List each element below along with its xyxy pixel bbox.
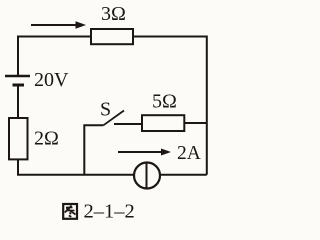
current source: [134, 163, 160, 189]
wire top-right and right side: [133, 37, 207, 175]
wire 5Ω to right rail: [184, 122, 207, 124]
battery E: [5, 76, 30, 85]
svg-text:5Ω: 5Ω: [152, 91, 177, 113]
wire battery to 2Ω resistor: [17, 87, 19, 119]
current arrow 2A: [118, 149, 171, 156]
caption 图 glyph: [63, 204, 77, 219]
wire top-left segment: [18, 37, 91, 76]
svg-text:20V: 20V: [34, 69, 69, 91]
resistor 3Ω: [91, 29, 133, 44]
wire switch branch left lead and junction drop: [84, 125, 103, 175]
svg-text:3Ω: 3Ω: [101, 3, 126, 25]
current arrow (top): [31, 21, 86, 28]
svg-text:2Ω: 2Ω: [34, 128, 59, 150]
svg-text:2–1–2: 2–1–2: [84, 201, 135, 223]
switch S blade: [104, 111, 125, 126]
resistor 5Ω: [142, 115, 184, 131]
svg-text:S: S: [100, 99, 111, 121]
wire switch to 5Ω: [114, 123, 142, 125]
wire bottom (2Ω down, bottom rail): [18, 159, 207, 175]
svg-text:2A: 2A: [177, 143, 201, 164]
resistor 2Ω: [9, 118, 28, 159]
